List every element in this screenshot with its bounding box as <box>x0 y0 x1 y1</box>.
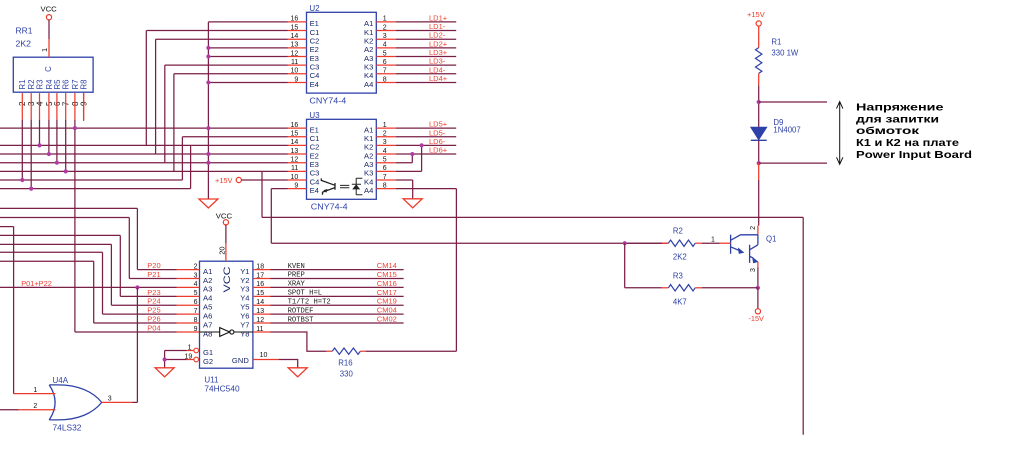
wire RR1 pin4 stub <box>39 93 41 120</box>
wire tap upper horizontal <box>759 101 827 103</box>
svg-text:U11: U11 <box>204 376 219 385</box>
svg-text:U3: U3 <box>309 111 320 120</box>
svg-text:74LS32: 74LS32 <box>53 423 82 432</box>
svg-text:A4: A4 <box>364 186 373 195</box>
wire RR1 pin6 vertical <box>56 120 58 163</box>
wire U3 left stub pin 14 <box>288 144 307 146</box>
wire feed row to U11 pin 7 <box>103 313 177 315</box>
node emitter junction <box>206 46 210 50</box>
svg-text:A2: A2 <box>203 276 212 285</box>
svg-text:LD5-: LD5- <box>429 128 446 137</box>
diode D9 1N4007 <box>751 127 767 140</box>
svg-text:K1: K1 <box>364 28 373 37</box>
svg-text:VCC: VCC <box>41 5 58 14</box>
wire U3 E4 left jog <box>271 188 288 190</box>
node RR1 pin7 junction <box>64 169 68 173</box>
wire U3 LD net pin 4 <box>396 153 456 155</box>
node P01+P22 junction <box>135 285 139 289</box>
svg-text:330 1W: 330 1W <box>771 48 799 57</box>
wire E4 to R2 horizontal <box>271 242 668 244</box>
resistor R3 <box>668 285 695 291</box>
wire feed vertical <box>136 208 138 269</box>
svg-text:Y1: Y1 <box>240 267 249 276</box>
wire row to C2 riser from left edge <box>0 188 191 190</box>
wire P01+P22 row <box>0 286 177 288</box>
svg-text:P25: P25 <box>147 306 160 315</box>
wire GND to ground <box>279 360 298 368</box>
svg-text:C1: C1 <box>310 28 320 37</box>
wire U2 left stub pin 14 <box>288 38 307 40</box>
resistor R1 <box>756 48 762 74</box>
wire U3 pin8 A4 <box>396 188 457 190</box>
wire feed row to U11 pin 6 <box>111 304 176 306</box>
wire R3 left lead <box>662 287 669 289</box>
svg-text:CNY74-4: CNY74-4 <box>311 203 348 212</box>
svg-text:1: 1 <box>40 48 49 52</box>
annotation double arrow <box>837 102 843 165</box>
wire U11 right stub pin 17 <box>253 278 271 280</box>
svg-text:CM17: CM17 <box>377 288 397 297</box>
wire RR1 pin7 vertical <box>65 120 67 172</box>
wire U4A pin1 feed vertical <box>13 227 15 394</box>
svg-text:P01+P22: P01+P22 <box>21 279 52 288</box>
wire Q1 base stub <box>720 242 731 244</box>
svg-text:330: 330 <box>340 369 354 378</box>
svg-text:Y6: Y6 <box>240 311 249 320</box>
svg-text:XRAY: XRAY <box>288 281 306 289</box>
wire branch down to R3 <box>624 243 626 288</box>
wire U11 left stub pin 6 <box>177 304 200 306</box>
svg-text:A2: A2 <box>364 45 373 54</box>
resistor R16 <box>332 348 360 354</box>
node G1-G2 junction <box>163 357 167 361</box>
svg-text:LD2-: LD2- <box>429 31 446 40</box>
wire U3 right stub pin 3 <box>376 144 396 146</box>
node RR1 pin8 junction <box>73 126 77 130</box>
wire D9 to tap2 <box>758 140 760 163</box>
svg-text:A4: A4 <box>364 80 373 89</box>
wire U11 right stub pin 16 <box>253 286 271 288</box>
svg-text:E3: E3 <box>310 160 319 169</box>
svg-text:G1: G1 <box>203 348 213 357</box>
wire U3 right stub pin 2 <box>376 136 396 138</box>
wire U11 pin20 stub <box>225 243 227 261</box>
wire U11 right stub pin 13 <box>253 313 271 315</box>
svg-text:VCC: VCC <box>216 211 233 220</box>
node RR1 pin3 junction <box>29 187 33 191</box>
wire U3 left stub pin 11 <box>288 170 307 172</box>
wire U2 LD net pin 3 <box>396 38 456 40</box>
node LD6- junction <box>420 143 424 147</box>
wire feed vertical <box>128 218 130 279</box>
wire feed row to U11 pin 3 <box>129 278 176 280</box>
svg-text:A6: A6 <box>203 311 212 320</box>
wire U2 LD net pin 1 <box>396 21 456 23</box>
U11 G2 invert bubble <box>194 357 199 362</box>
svg-text:Y3: Y3 <box>240 285 249 294</box>
node U3 E1 ground junction <box>206 126 210 130</box>
svg-text:C2: C2 <box>310 37 320 46</box>
wire row U3 E2 from left edge <box>0 153 288 155</box>
svg-text:A3: A3 <box>203 285 212 294</box>
svg-text:E4: E4 <box>310 80 319 89</box>
svg-text:CM16: CM16 <box>377 279 397 288</box>
wire Q1 collector stub <box>757 226 759 235</box>
wire U3 right stub pin 5 <box>376 162 396 164</box>
svg-text:VCC: VCC <box>222 266 232 292</box>
wire U11 right stub pin 15 <box>253 295 271 297</box>
svg-text:20: 20 <box>218 246 227 254</box>
svg-text:CNY74-4: CNY74-4 <box>309 97 346 106</box>
svg-text:Q1: Q1 <box>766 235 776 244</box>
svg-text:A1: A1 <box>364 19 373 28</box>
wire feed horizontal from left edge <box>0 207 137 209</box>
wire Y3 net <box>271 286 404 288</box>
wire U11 left stub pin 7 <box>177 313 200 315</box>
svg-text:LD6-: LD6- <box>429 137 446 146</box>
svg-text:LD4+: LD4+ <box>429 74 448 83</box>
node RR1 pin5 junction <box>47 152 51 156</box>
+15V power port circle top right <box>756 21 761 26</box>
wire feed row to U11 pin 5 <box>120 295 176 297</box>
node U3 E3 ground junction <box>206 161 210 165</box>
svg-text:K3: K3 <box>364 169 373 178</box>
wire feed horizontal from left edge <box>0 251 103 253</box>
svg-text:GND: GND <box>232 356 249 365</box>
U3 internal opto symbol: LED with bracket <box>352 178 363 195</box>
wire U3 right stub pin 4 <box>376 153 396 155</box>
wire Y6 net <box>271 313 404 315</box>
svg-text:K2: K2 <box>364 143 373 152</box>
wire U2 left stub pin 9 <box>288 81 307 83</box>
svg-text:+15V: +15V <box>747 10 765 19</box>
node RR1 pin4 junction <box>37 143 41 147</box>
svg-text:3: 3 <box>108 395 112 402</box>
wire U3 right stub pin 7 <box>376 179 396 181</box>
svg-text:LD2+: LD2+ <box>429 39 448 48</box>
wire feed row to U11 pin 2 <box>137 269 176 271</box>
wire U2 left stub pin 10 <box>288 73 307 75</box>
wire U2 LD net pin 4 <box>396 47 456 49</box>
svg-text:A2: A2 <box>364 151 373 160</box>
wire U2 right stub pin 2 <box>376 30 396 32</box>
svg-text:A4: A4 <box>203 294 212 303</box>
svg-text:C4: C4 <box>310 71 320 80</box>
wire U2 LD net pin 7 <box>396 73 456 75</box>
wire G2 stub <box>187 359 194 361</box>
wire U11 right stub pin 14 <box>253 304 271 306</box>
wire R16 to A4 net <box>366 350 456 352</box>
wire Y2 net <box>271 278 404 280</box>
svg-text:LD4-: LD4- <box>429 65 446 74</box>
wire row U3 C2 from left edge <box>0 144 288 146</box>
wire feed horizontal from left edge <box>0 217 129 219</box>
wire U11 left stub pin 2 <box>177 269 200 271</box>
svg-text:A5: A5 <box>203 303 212 312</box>
svg-text:LD3-: LD3- <box>429 57 446 66</box>
svg-text:2K2: 2K2 <box>673 252 687 261</box>
wire U2 LD net pin 5 <box>396 56 456 58</box>
transistor Q1 <box>731 235 758 263</box>
wire U3 right stub pin 6 <box>376 170 396 172</box>
wire U4A output <box>132 401 137 403</box>
wire U11 left stub pin 5 <box>177 295 200 297</box>
VCC power port circle above U11 <box>223 220 228 225</box>
wire U2 C4 row <box>174 73 288 75</box>
wire U3 LD net pin 1 <box>396 127 456 129</box>
svg-text:2: 2 <box>33 403 37 410</box>
svg-text:ROTDEF: ROTDEF <box>288 307 314 315</box>
svg-text:Y7: Y7 <box>240 320 249 329</box>
wire U2 right stub pin 8 <box>376 81 396 83</box>
wire U11 left stub pin 4 <box>177 286 200 288</box>
wire U3 LD net pin 3 <box>396 144 456 146</box>
svg-text:P26: P26 <box>147 315 160 324</box>
svg-text:A3: A3 <box>364 160 373 169</box>
wire Q1 emitter stub <box>757 262 759 268</box>
svg-text:Power Input Board: Power Input Board <box>856 150 972 161</box>
U3 internal opto symbol: coupling lines <box>340 185 349 187</box>
wire RR1 pin9 stub only <box>83 93 85 121</box>
wire feed vertical <box>119 235 121 296</box>
svg-text:K3: K3 <box>364 62 373 71</box>
wire U2 right stub pin 1 <box>376 21 396 23</box>
node RR1 pin6 junction <box>55 161 59 165</box>
wire RR1 pin5 stub <box>48 93 50 120</box>
wire P04 row <box>75 331 177 333</box>
wire U4A pin2 from left edge <box>0 409 19 411</box>
wire U3 left stub pin 9 <box>288 188 307 190</box>
wire U3 C3 down <box>261 171 263 217</box>
optocoupler U2 <box>307 12 377 93</box>
wire K3 to LD6- vertical <box>421 145 423 171</box>
svg-text:C2: C2 <box>310 143 320 152</box>
wire riser to U3 C2 <box>190 145 192 188</box>
wire R1 lower lead <box>758 73 760 85</box>
wire U11 left stub pin 9 <box>177 331 200 333</box>
wire U2 left stub pin 11 <box>288 64 307 66</box>
ground below U3 pin7 <box>403 199 422 208</box>
svg-text:для запитки: для запитки <box>856 114 939 125</box>
svg-text:C: C <box>44 66 53 72</box>
U3 internal opto symbol: phototransistor <box>321 178 335 194</box>
wire feed row to U11 pin 8 <box>94 322 177 324</box>
wire U4A output up to P01+P22 <box>136 287 138 402</box>
svg-text:E2: E2 <box>310 45 319 54</box>
svg-text:R6: R6 <box>62 80 71 90</box>
svg-text:P04: P04 <box>147 323 160 332</box>
wire U2 right stub pin 7 <box>376 73 396 75</box>
svg-text:E4: E4 <box>310 186 319 195</box>
node R2/R3 branch <box>623 241 627 245</box>
svg-text:P24: P24 <box>147 297 160 306</box>
U11 internal inverter symbol on A8/Y8 row <box>200 328 253 337</box>
U11 G1 invert bubble <box>194 348 199 353</box>
wire R2 to base <box>702 242 720 244</box>
svg-text:Напряжение: Напряжение <box>856 103 944 114</box>
svg-text:Y2: Y2 <box>240 276 249 285</box>
wire U11 left stub pin 8 <box>177 322 200 324</box>
svg-text:2K2: 2K2 <box>16 40 32 49</box>
svg-text:LD3+: LD3+ <box>429 48 448 57</box>
wire U3 left stub pin 13 <box>288 153 307 155</box>
svg-text:R2: R2 <box>673 227 683 236</box>
wire U2 C3 vertical <box>164 65 166 163</box>
node U3 E2 ground junction <box>206 152 210 156</box>
wire row U3 E1 from left edge <box>0 127 288 129</box>
svg-text:P21: P21 <box>147 270 160 279</box>
wire feed horizontal from left edge <box>0 260 94 262</box>
wire feed horizontal from left edge <box>0 234 120 236</box>
svg-text:E3: E3 <box>310 54 319 63</box>
wire R1 to D9 <box>758 85 760 127</box>
svg-text:R5: R5 <box>53 79 62 90</box>
node emitter junction <box>206 54 210 58</box>
svg-text:LD6+: LD6+ <box>429 146 448 155</box>
svg-text:3: 3 <box>750 268 757 272</box>
wire U11 right stub pin 18 <box>253 269 271 271</box>
svg-text:CM04: CM04 <box>377 306 397 315</box>
wire RR1 pin7 stub <box>65 93 67 120</box>
svg-text:4K7: 4K7 <box>673 298 687 307</box>
wire C3 net long vertical <box>802 217 804 434</box>
svg-text:U2: U2 <box>309 4 320 13</box>
wire R2 left lead <box>662 242 669 244</box>
wire U11 left stub pin 3 <box>177 278 200 280</box>
wire RR1 pin1 stub <box>48 39 50 57</box>
wire VCC to RR1 pin1 upper <box>48 20 50 39</box>
resistor R2 <box>668 240 695 246</box>
wire feed vertical <box>102 252 104 314</box>
svg-text:E2: E2 <box>310 151 319 160</box>
svg-text:ROTBST: ROTBST <box>288 316 315 324</box>
wire K4 down to ground <box>412 180 414 199</box>
svg-text:SPOT H=L: SPOT H=L <box>288 290 323 298</box>
svg-text:PREP: PREP <box>288 272 305 280</box>
svg-text:K4: K4 <box>364 71 373 80</box>
svg-text:A1: A1 <box>364 125 373 134</box>
wire row U3 C1 <box>182 136 288 138</box>
wire U4A pin1 feed from left edge <box>0 226 14 228</box>
node RR1 pin2 junction <box>20 178 24 182</box>
svg-text:1: 1 <box>711 236 715 243</box>
wire A3 to LD6+ vertical <box>411 154 413 163</box>
wire U3 pin6 K3 <box>396 170 422 172</box>
wire U3 E4 down <box>270 189 272 244</box>
svg-text:RR1: RR1 <box>16 27 34 36</box>
svg-text:R3: R3 <box>35 80 44 90</box>
svg-text:A7: A7 <box>203 320 212 329</box>
wire U11 right stub pin 11 <box>253 331 271 333</box>
svg-text:+15V: +15V <box>215 176 233 185</box>
wire A4 down to R16 <box>455 189 457 352</box>
wire U2 right stub pin 5 <box>376 56 396 58</box>
wire RR1 pin8 stub <box>74 93 76 120</box>
svg-text:LD1+: LD1+ <box>429 13 448 22</box>
wire +15V to U3 pin10 <box>241 179 288 181</box>
wire G1 stub <box>187 350 194 352</box>
wire row U3 E3 from left edge <box>0 162 288 164</box>
wire row U3 C3 from left edge <box>0 170 288 172</box>
wire RR1 pin9 stub <box>83 93 85 120</box>
wire R3 to emitter <box>702 287 758 289</box>
wire RR1 pin3 vertical <box>30 120 32 189</box>
wire riser to U3 C1 <box>181 137 183 180</box>
svg-text:E1: E1 <box>310 19 319 28</box>
wire Y7 net <box>271 322 404 324</box>
wire VCC down <box>225 225 227 243</box>
wire RR1 pin6 stub <box>56 93 58 120</box>
svg-text:CM14: CM14 <box>377 261 397 270</box>
svg-text:R3: R3 <box>673 271 683 280</box>
wire tap lower horizontal <box>759 162 827 164</box>
node winding- tap <box>757 161 761 165</box>
wire U3 LD net pin 2 <box>396 136 456 138</box>
wire U4A pin1 stub <box>14 393 56 395</box>
wire tap2 down red <box>758 163 760 180</box>
svg-text:1N4007: 1N4007 <box>773 126 800 135</box>
wire U2 C1 row <box>146 30 288 32</box>
svg-text:Y5: Y5 <box>240 303 249 312</box>
U4A gate body <box>49 385 101 420</box>
node LD6+ junction <box>410 152 414 156</box>
wire RR1 pin2 stub <box>21 93 23 120</box>
wire U2 right stub pin 4 <box>376 47 396 49</box>
wire Y4 net <box>271 295 404 297</box>
wire RR1 pin5 vertical <box>48 120 50 154</box>
wire to R2 <box>625 242 662 244</box>
svg-text:T1/T2 H=T2: T1/T2 H=T2 <box>288 298 331 306</box>
svg-text:74HC540: 74HC540 <box>204 385 240 394</box>
svg-text:C1: C1 <box>310 134 320 143</box>
wire U2 left stub pin 13 <box>288 47 307 49</box>
wire U4A pin2 stub <box>19 409 56 411</box>
wire to R3 <box>625 287 662 289</box>
wire R2 right lead <box>695 242 702 244</box>
wire RR1 pin4 vertical <box>39 120 41 146</box>
VCC power port circle <box>46 15 51 20</box>
wire +15V to R1 <box>758 26 760 47</box>
svg-text:K1: K1 <box>364 134 373 143</box>
svg-text:R7: R7 <box>71 80 80 90</box>
svg-text:A8: A8 <box>203 329 212 338</box>
optocoupler U3 <box>307 119 377 199</box>
wire U2 left stub pin 12 <box>288 56 307 58</box>
wire G1-G2 tie to ground <box>165 351 187 368</box>
-15V power port circle <box>755 309 760 314</box>
svg-text:U4A: U4A <box>53 376 69 385</box>
wire row to C1 riser from left edge <box>0 179 182 181</box>
wire U2 left stub pin 16 <box>288 21 307 23</box>
svg-text:A1: A1 <box>203 267 212 276</box>
wire collector feed <box>758 180 760 226</box>
svg-text:2: 2 <box>750 226 757 230</box>
wire feed horizontal from left edge <box>0 243 111 245</box>
svg-text:Y4: Y4 <box>240 294 249 303</box>
svg-text:К1 и К2 на плате: К1 и К2 на плате <box>856 138 959 149</box>
wire U2 right stub pin 3 <box>376 38 396 40</box>
ground below U11 GND <box>288 368 307 377</box>
wire U3 left stub pin 16 <box>288 127 307 129</box>
ground below G1/G2 <box>155 368 174 377</box>
svg-text:P23: P23 <box>147 288 160 297</box>
svg-text:-15V: -15V <box>749 314 765 323</box>
wire U3 left stub pin 12 <box>288 162 307 164</box>
wire U11 right stub pin 12 <box>253 322 271 324</box>
ground emitter bus <box>199 199 218 208</box>
buffer U11 74HC540 <box>200 261 253 368</box>
svg-text:E1: E1 <box>310 125 319 134</box>
